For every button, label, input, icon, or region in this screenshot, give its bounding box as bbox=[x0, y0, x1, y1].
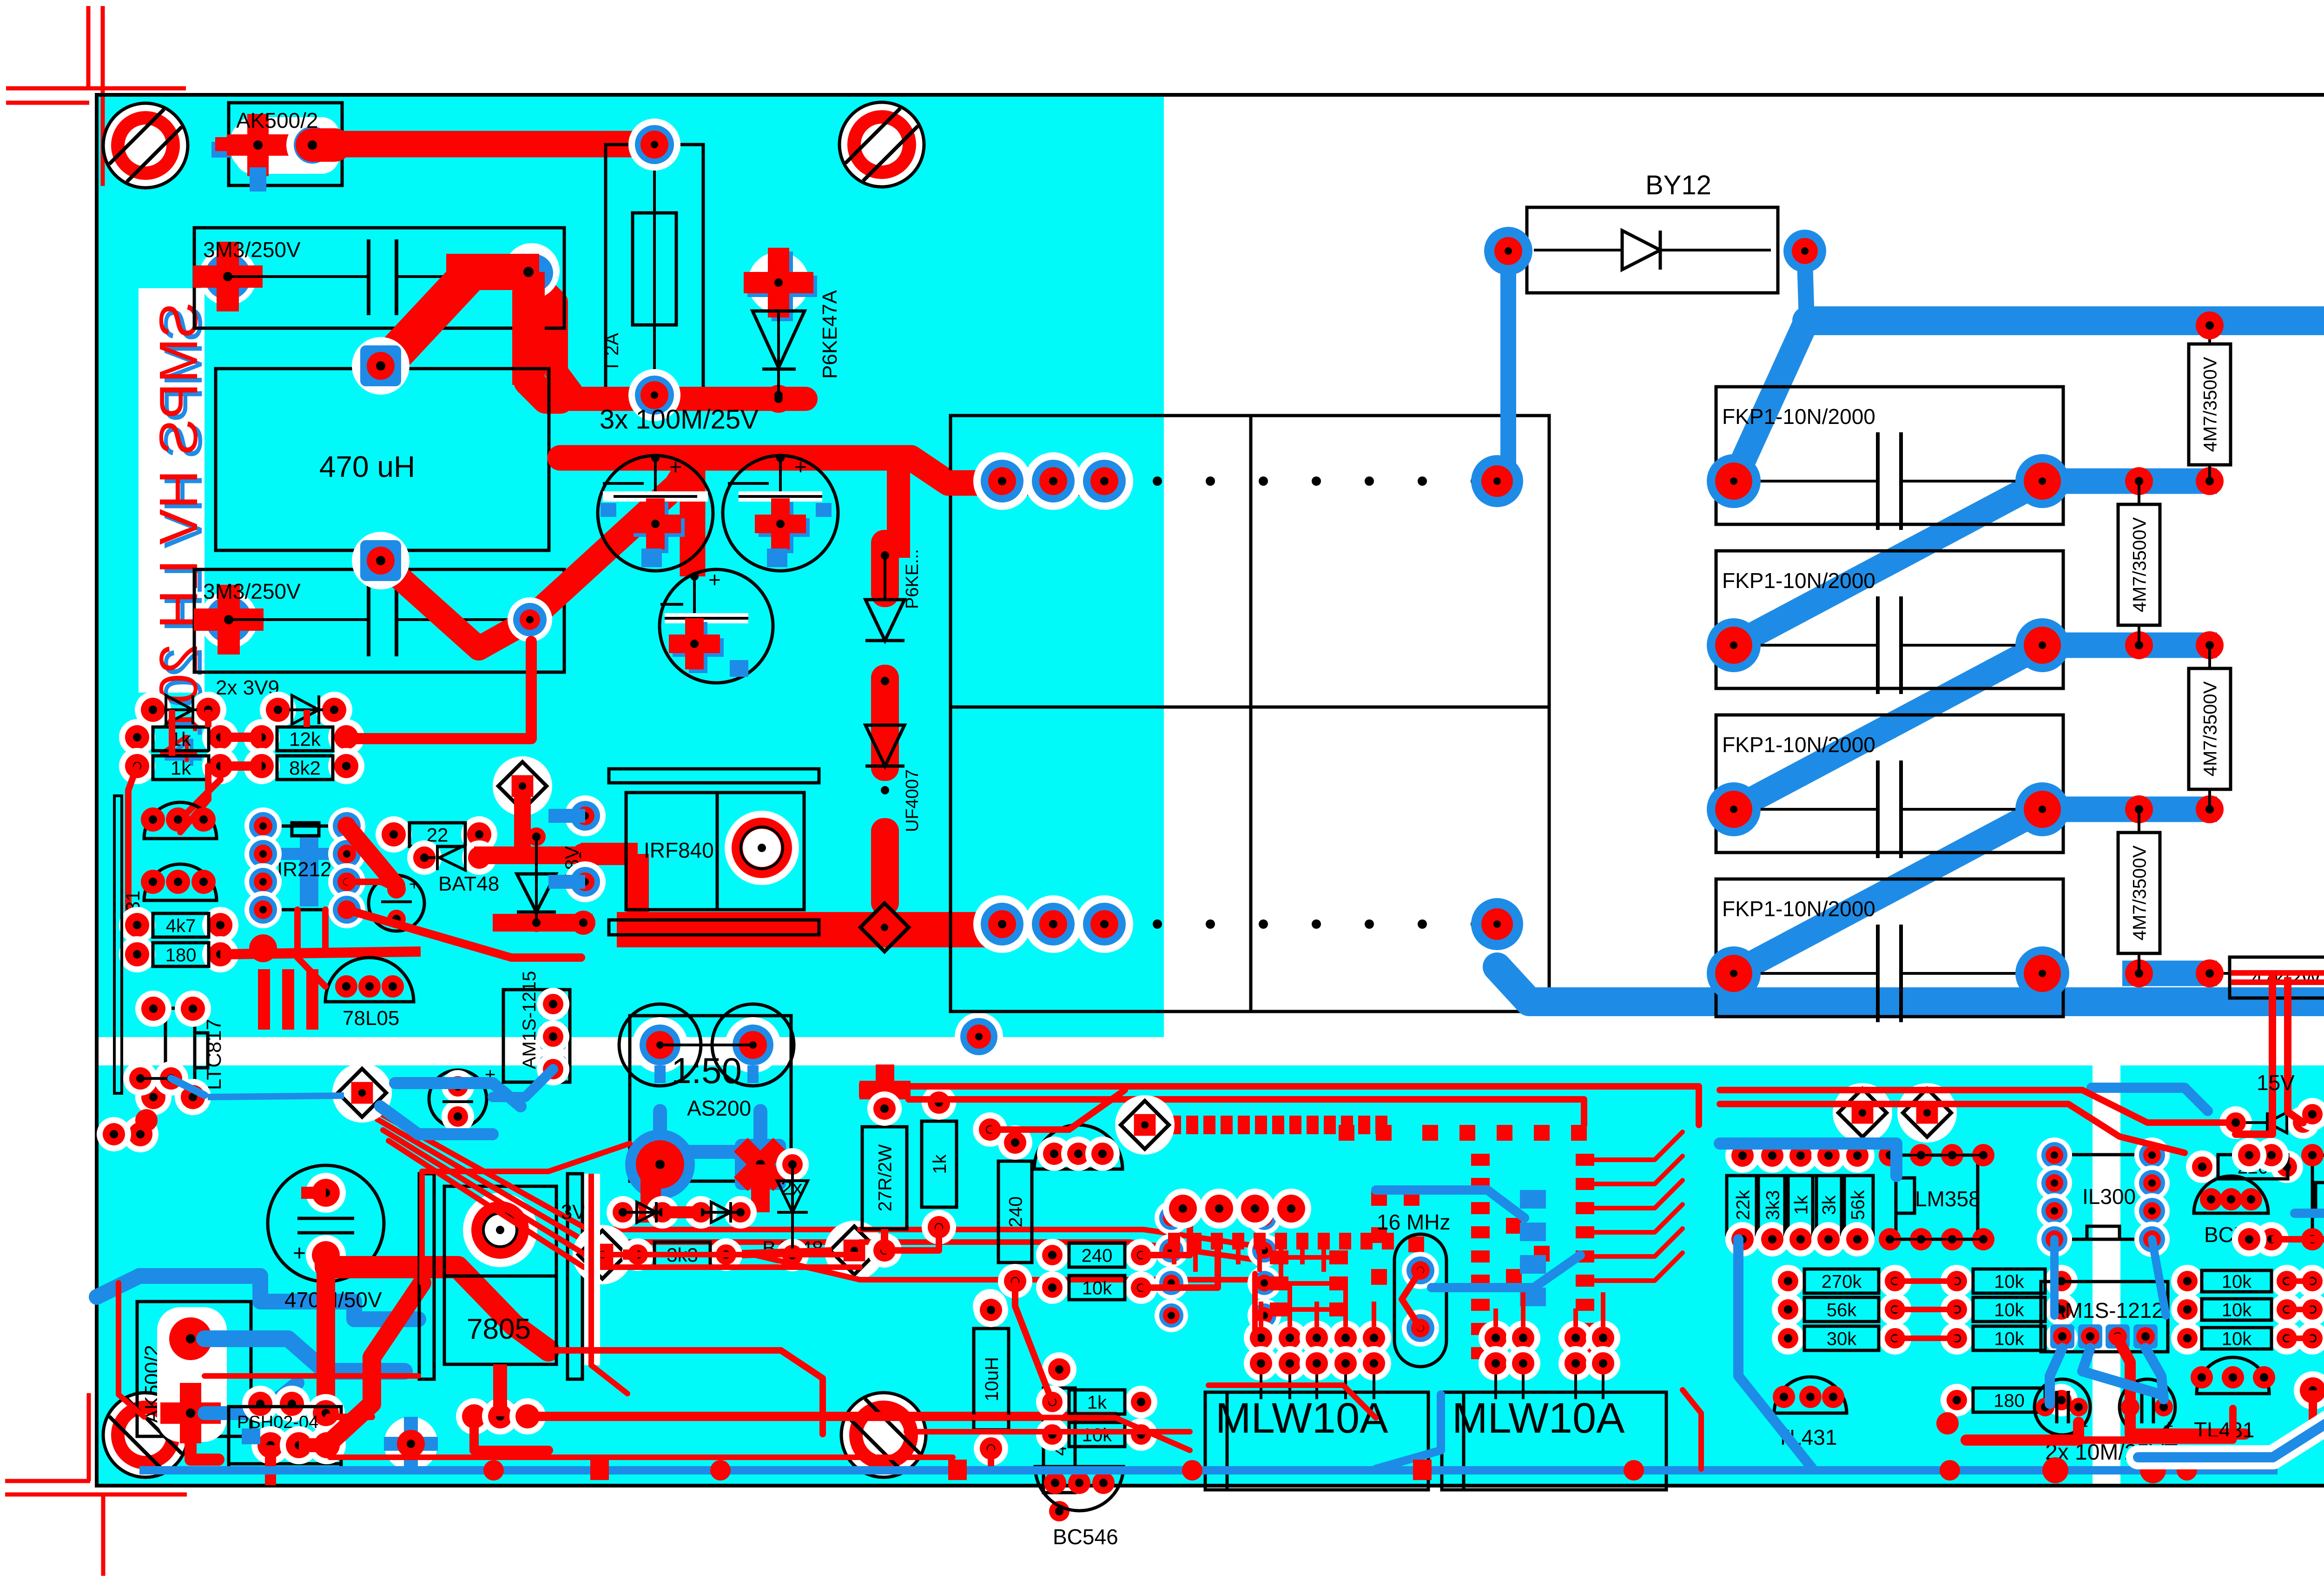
resistor 1k #2 bbox=[119, 748, 155, 784]
red sq pads row top bbox=[1169, 1116, 1181, 1134]
svg-text:56k: 56k bbox=[1848, 1190, 1868, 1220]
wire red V under inductor bbox=[381, 561, 523, 648]
wire red drops to band bbox=[258, 969, 270, 1030]
white keepout right of 7805 bbox=[584, 1174, 600, 1365]
svg-text:+: + bbox=[708, 568, 721, 592]
wire 470M down bbox=[317, 1255, 335, 1408]
wire 18V thick net bbox=[514, 790, 531, 859]
IC LM358 #1 outline bbox=[1896, 1155, 1978, 1239]
wire primary bar top bbox=[948, 470, 1116, 496]
mounting hole top-mid bbox=[839, 102, 924, 187]
regulator 7805 body outline bbox=[444, 1186, 556, 1364]
MCU SOIC right pads bbox=[1471, 1154, 1490, 1166]
wire red bundle into right section bbox=[1720, 1090, 2226, 1123]
svg-text:240: 240 bbox=[1082, 1245, 1113, 1266]
pads AM1S-1212 bbox=[2050, 1324, 2074, 1349]
capacitor 470M/50V outline bbox=[268, 1165, 384, 1282]
wire IRF840 drain bar bbox=[617, 912, 1002, 947]
diode BAT48 vertical bbox=[776, 1148, 809, 1181]
wire MCU fan bbox=[1594, 1132, 1683, 1160]
cap plates FKP#4 bbox=[1876, 925, 1880, 1022]
svg-text:10k: 10k bbox=[1082, 1425, 1112, 1445]
IC IL300 outline bbox=[2061, 1155, 2145, 1239]
svg-text:+: + bbox=[794, 455, 807, 479]
diode BAT48 bbox=[407, 840, 442, 875]
red mcu links bbox=[1172, 1249, 1176, 1264]
wire blue wide steps bbox=[139, 1276, 418, 1319]
resistor 56k top right bbox=[2296, 1098, 2324, 1130]
pad FKP#1 left bbox=[1707, 454, 1761, 508]
via diamonds pair bbox=[1833, 1083, 1892, 1143]
cyan ground plane bottom right bbox=[2120, 1065, 2324, 1486]
pad fuse bottom bbox=[628, 369, 680, 421]
wire blue AM1S bbox=[493, 1069, 553, 1097]
svg-text:30k: 30k bbox=[1827, 1329, 1857, 1349]
svg-text:FKP1-10N/2000: FKP1-10N/2000 bbox=[1722, 404, 1875, 429]
svg-text:1:50: 1:50 bbox=[671, 1050, 742, 1091]
pad cross red chain bottom bbox=[859, 1064, 911, 1116]
diode chain P6KE / UF4007 bbox=[871, 530, 899, 607]
wire blue from AK500 bbox=[205, 1339, 404, 1371]
diamond via left of 3k3 bbox=[573, 1225, 632, 1284]
mounting hole bottom-mid bbox=[841, 1393, 926, 1477]
red sq pads row mid bbox=[1168, 1233, 1180, 1249]
zener 3V9 #2 bbox=[260, 692, 296, 728]
resistor 4M7/3500V #3 bbox=[2196, 631, 2224, 659]
svg-text:1k: 1k bbox=[930, 1154, 950, 1174]
connector PSH02-04 outline bbox=[229, 1407, 341, 1470]
pad FKP#4 right bbox=[2015, 946, 2069, 1000]
pads LM358#1 bbox=[1879, 1144, 1901, 1166]
connector AK500/2 bottom outline bbox=[137, 1302, 251, 1436]
wire diag to bus bbox=[530, 460, 693, 620]
wire main red bus caps bbox=[560, 458, 1116, 483]
fuse F1 outline bbox=[606, 145, 703, 395]
wire fuse-bottom bar bbox=[560, 387, 805, 411]
svg-text:4M7/3500V: 4M7/3500V bbox=[2129, 517, 2150, 612]
resistor 180 left bbox=[1941, 1384, 1973, 1416]
svg-text:4M7/3500V: 4M7/3500V bbox=[2200, 681, 2220, 776]
resistor 4M7/3500V #4 bbox=[2125, 795, 2153, 823]
white notch around bottom-right mount hole bbox=[2305, 1367, 2324, 1486]
pads 1:50 top bbox=[619, 1004, 701, 1086]
svg-text:IRF840: IRF840 bbox=[644, 838, 714, 862]
mounting hole top-left bbox=[103, 103, 188, 188]
svg-text:10uH: 10uH bbox=[982, 1357, 1002, 1402]
black outline strip left bbox=[114, 796, 122, 1093]
cap plates FKP#1 bbox=[1876, 432, 1880, 530]
wire red from AK500 bbox=[191, 1435, 218, 1460]
svg-text:P6KE47A: P6KE47A bbox=[819, 290, 841, 379]
crystal 16 MHz outline bbox=[1394, 1234, 1446, 1367]
capacitor 100M/25V #3 bbox=[660, 569, 773, 683]
svg-text:FKP1-10N/2000: FKP1-10N/2000 bbox=[1722, 897, 1875, 921]
svg-text:27R/2W: 27R/2W bbox=[875, 1144, 895, 1212]
wire red thin bundle mid bbox=[383, 1130, 860, 1255]
svg-text:AM1S-1215: AM1S-1215 bbox=[519, 971, 540, 1069]
svg-text:10k: 10k bbox=[2222, 1329, 2252, 1349]
white blob AK500/2 bbox=[235, 117, 339, 174]
svg-text:P6KE...: P6KE... bbox=[903, 549, 922, 609]
resistor 240 h bbox=[1036, 1239, 1069, 1271]
pad BY12 left bbox=[1484, 227, 1532, 275]
red pads row B bbox=[1244, 1321, 1278, 1355]
IC IR2121 blue tracks bbox=[300, 837, 318, 906]
svg-text:AS200: AS200 bbox=[687, 1096, 751, 1120]
svg-text:AM1S-1212: AM1S-1212 bbox=[2051, 1298, 2164, 1322]
capacitor 3M3/250V #1 outline bbox=[194, 228, 564, 328]
pads AK500/2 bottom bbox=[161, 1309, 220, 1368]
cap plates 3M3#2 bbox=[367, 584, 370, 656]
resistors 10k 10k 10k right bbox=[2171, 1265, 2204, 1297]
diode P6KE47A bbox=[748, 252, 809, 313]
pad FKP#2 right bbox=[2015, 618, 2069, 672]
blue bits under caps bbox=[641, 549, 662, 567]
connector AK500/2 top bbox=[229, 103, 342, 185]
wire cluster to TL431 bbox=[180, 780, 220, 820]
wire chain bottom to bar bbox=[876, 902, 894, 924]
pads IL300 bbox=[2037, 1137, 2072, 1173]
wire red long bottom bbox=[328, 1414, 372, 1420]
svg-text:10k: 10k bbox=[1994, 1271, 2024, 1292]
wire 1k net bbox=[885, 1227, 939, 1250]
red small squares scatter bbox=[1371, 1190, 1387, 1206]
svg-text:10k: 10k bbox=[1994, 1300, 2024, 1320]
transistor TL431 #1 bottom bbox=[1774, 1377, 1847, 1413]
pads 7805 pins bbox=[460, 1402, 488, 1429]
cyan ground plane top-left bbox=[97, 95, 1164, 1037]
resistor 240 vertical bbox=[998, 1161, 1032, 1263]
capacitor FKP1-10N/2000 #4 outline bbox=[1716, 879, 2063, 1017]
pad AS200 left bbox=[625, 1130, 695, 1199]
svg-text:AK500/2: AK500/2 bbox=[236, 108, 318, 132]
svg-text:56k: 56k bbox=[1827, 1300, 1857, 1320]
cap plates FKP#2 bbox=[1876, 596, 1880, 694]
pad AK500/2 pin2 bbox=[286, 119, 338, 171]
svg-text:FKP1-10N/2000: FKP1-10N/2000 bbox=[1722, 733, 1875, 757]
pads mid bbox=[242, 1386, 278, 1422]
svg-text:10k: 10k bbox=[2222, 1300, 2252, 1320]
svg-text:MLW10A: MLW10A bbox=[1452, 1395, 1625, 1442]
via diamond on drain bar bbox=[860, 903, 909, 952]
svg-text:10k: 10k bbox=[1994, 1329, 2024, 1349]
wire cluster IR2121 down bbox=[297, 910, 325, 986]
svg-text:3k3: 3k3 bbox=[1763, 1190, 1783, 1220]
wire AS200 red L bbox=[623, 1176, 651, 1212]
red dot top left strip bbox=[135, 1109, 158, 1131]
wire bus to chain bbox=[887, 458, 910, 558]
wire red AM1S area bbox=[1966, 1422, 2079, 1440]
resistor 22 bbox=[376, 816, 412, 853]
blue rects mcu bbox=[1520, 1190, 1546, 1209]
resistor 470 vertical bbox=[1043, 1388, 1075, 1493]
IRF840 hole pad bbox=[725, 811, 799, 885]
resistor 10k h2 bbox=[1036, 1418, 1069, 1451]
capacitor 10M/25VT bottom circle bbox=[429, 1070, 487, 1128]
wire texture 4 bbox=[1683, 1390, 1701, 1469]
resistors 10k 10k 10k left2 bbox=[1941, 1265, 1973, 1297]
inductor 10uH bbox=[974, 1329, 1009, 1430]
crop mark bottom-left bbox=[87, 1393, 91, 1481]
IC8 pads left col bbox=[1155, 1201, 1188, 1235]
pad on bar at P6KE bbox=[765, 385, 792, 413]
silkscreen text SMPS HV LH 2014 bbox=[139, 288, 205, 693]
svg-text:LM358: LM358 bbox=[1915, 1187, 1981, 1211]
svg-text:4M7/3500V: 4M7/3500V bbox=[2129, 845, 2150, 940]
wire thick top bar to fuse bbox=[325, 131, 655, 158]
pad transformer sec top bbox=[1471, 455, 1523, 507]
zener 3V9 #1 bbox=[135, 692, 171, 728]
pads LTC817 bbox=[135, 991, 172, 1027]
pad AS200 right X bbox=[735, 1139, 786, 1190]
pad transformer sec bottom bbox=[1471, 898, 1523, 950]
wire diag 3M3#1 to inductor bbox=[382, 279, 465, 365]
wire elbow via to bar bbox=[534, 279, 576, 399]
capacitor 100M/25V #2 bbox=[723, 456, 838, 571]
wire cluster reds bbox=[220, 733, 262, 742]
MOSFET IRF840 heatsink top bbox=[609, 769, 819, 783]
diode pair 3V0 bbox=[607, 1196, 639, 1229]
via 470uH top bbox=[352, 337, 409, 395]
optocoupler LTC817 outline bbox=[165, 1008, 195, 1093]
cap plates 3M3#1 bbox=[367, 239, 370, 315]
optocoupler area small parts bbox=[123, 1061, 158, 1096]
resistor 4M7/3500V #1 bbox=[2196, 311, 2224, 339]
wire BY12 right to bus bbox=[1805, 260, 1807, 321]
wire 12k to 3M3#2 net bbox=[346, 641, 531, 739]
pad below transformer bbox=[955, 1012, 1003, 1061]
IC LM358 #2 outline bbox=[2312, 1155, 2324, 1239]
blue stub under AK pin1 bbox=[250, 167, 266, 192]
svg-text:+: + bbox=[293, 1241, 306, 1266]
wire texture 3 bbox=[1252, 1274, 1258, 1339]
blue bar PSH bbox=[242, 1428, 260, 1444]
pad FKP#2 left bbox=[1707, 618, 1761, 672]
resistor 27R/2W bbox=[862, 1127, 907, 1229]
wire blue AM1S legs bbox=[2050, 1348, 2062, 1404]
white blob AK500/2 bottom bbox=[157, 1307, 227, 1442]
resistor 180 bbox=[119, 936, 155, 972]
white keepouts TL431 bbox=[139, 800, 218, 841]
blue bottom bus bbox=[139, 1466, 2278, 1474]
pad 3M3#2 left cross bbox=[200, 591, 257, 648]
svg-text:240: 240 bbox=[1005, 1197, 1026, 1228]
DCDC AM1S-1212 outline bbox=[2041, 1282, 2168, 1352]
wire IRF840 left arm bbox=[581, 843, 638, 865]
svg-text:270k: 270k bbox=[1822, 1271, 1862, 1292]
wire diag bus to FKP1 bbox=[1734, 321, 1807, 481]
wire red bundle top bbox=[372, 1109, 860, 1230]
resistor 220 bbox=[2186, 1150, 2218, 1183]
DCDC AM1S-1215 outline bbox=[503, 990, 570, 1082]
resistors 270k 56k 10k left bbox=[1772, 1265, 1804, 1297]
wire FKP right bars bbox=[2042, 469, 2217, 494]
pads crystal bbox=[1402, 1252, 1439, 1289]
wire FKP diagonals bbox=[1734, 481, 2042, 645]
svg-text:180: 180 bbox=[1994, 1390, 2025, 1411]
wire mid red traces bbox=[1141, 1218, 1190, 1255]
pad FKP#4 left bbox=[1707, 946, 1761, 1000]
pads 470M/50V bbox=[306, 1173, 346, 1213]
diode BY12 outline bbox=[1527, 207, 1778, 293]
MOSFET IRF840 heatsink bottom bbox=[609, 920, 819, 935]
wire bus down to cap3 bbox=[680, 458, 706, 576]
wire band 3M3#1 bbox=[446, 254, 539, 290]
crop mark top-left bbox=[86, 6, 91, 90]
MCU SOIC left pads bbox=[1270, 1250, 1288, 1264]
wire IR2121 to cap bbox=[347, 826, 396, 886]
svg-text:10k: 10k bbox=[2222, 1271, 2252, 1292]
wire thin red through 47k bbox=[2231, 970, 2324, 976]
svg-text:IL300: IL300 bbox=[2082, 1184, 2136, 1209]
via diamond band bbox=[332, 1063, 392, 1123]
wire 180 to 7805 node bbox=[220, 952, 421, 954]
capacitor 100M/25V #1 bbox=[598, 456, 713, 571]
transistor BC546 bottom mid bbox=[1035, 1467, 1123, 1511]
zener 18V bbox=[527, 827, 546, 846]
pads IRF840 gate left bbox=[565, 795, 606, 836]
via 470uH bottom bbox=[352, 532, 409, 589]
pad FKP#3 left bbox=[1707, 782, 1761, 836]
regulator 7805 heatsink outline bbox=[419, 1174, 434, 1379]
wire blue band bbox=[208, 1096, 344, 1097]
resistors 270k 56k 30k right bbox=[2296, 1265, 2324, 1297]
via diamond gate bbox=[493, 756, 552, 816]
svg-text:180: 180 bbox=[165, 945, 197, 965]
wire BY12 left leg bbox=[1500, 260, 1516, 465]
capacitor FKP1-10N/2000 #3 outline bbox=[1716, 715, 2063, 853]
pads col mid bbox=[973, 1112, 1007, 1147]
wire gate bundle right bbox=[347, 910, 581, 958]
capacitor FKP1-10N/2000 #2 outline bbox=[1716, 551, 2063, 688]
pad BY12 right bbox=[1783, 230, 1826, 272]
capacitor FKP1-10N/2000 #1 outline bbox=[1716, 387, 2063, 524]
wire blue bottom right bbox=[1720, 1144, 1896, 1176]
red pads row A bbox=[1163, 1189, 1203, 1229]
resistor 10k h1 bbox=[1036, 1271, 1069, 1304]
red dots on bus bbox=[483, 1460, 504, 1481]
pad AK500/2 pin1 bbox=[229, 116, 287, 174]
mounting hole bottom-left bbox=[103, 1393, 188, 1477]
resistor 1k #1 bbox=[119, 719, 155, 755]
svg-text:3k: 3k bbox=[1819, 1195, 1839, 1215]
svg-text:+: + bbox=[669, 455, 682, 479]
via cross blue bottomleft bbox=[384, 1417, 438, 1471]
connector MLW10A #2 outline bbox=[1442, 1392, 1666, 1490]
connector MLW10A #1 outline bbox=[1205, 1392, 1428, 1490]
red dots under caps bbox=[2042, 1457, 2068, 1483]
resistor 1k vertical bbox=[922, 1121, 957, 1207]
svg-text:470 uH: 470 uH bbox=[319, 450, 415, 483]
svg-text:1k: 1k bbox=[171, 757, 191, 779]
transformer pads bottom row bbox=[973, 895, 1031, 953]
fuse wire bbox=[653, 145, 656, 395]
capacitor 10M/25VT #2 bbox=[2119, 1379, 2175, 1435]
wire red horiz bundle lower bbox=[957, 1466, 1190, 1472]
svg-text:T 2A: T 2A bbox=[602, 333, 622, 372]
inductor 470 uH outline bbox=[216, 369, 549, 550]
resistor column 22k 3k3 1k 3k 56k bbox=[1725, 1138, 1760, 1173]
svg-text:BC546: BC546 bbox=[1053, 1525, 1118, 1549]
svg-text:8k2: 8k2 bbox=[289, 757, 321, 779]
pads PSH02-04 bbox=[251, 1426, 290, 1464]
resistor 4M7/3500V #2 bbox=[2125, 467, 2153, 495]
node dots bottom row bbox=[1153, 919, 1162, 929]
wire 470M thick out bbox=[326, 1255, 548, 1350]
via 3M3#2 right bbox=[508, 597, 552, 642]
svg-text:22k: 22k bbox=[1733, 1190, 1753, 1220]
svg-text:10k: 10k bbox=[1082, 1278, 1112, 1298]
wire PSH to up-right bbox=[327, 1283, 422, 1445]
svg-text:3x 100M/25V: 3x 100M/25V bbox=[600, 404, 759, 435]
pad FKP#1 right bbox=[2015, 454, 2069, 508]
wire elbow via to bar2 bbox=[512, 272, 545, 385]
7805 hole pad bbox=[463, 1193, 537, 1267]
transformer 1:50 outline bbox=[630, 1016, 791, 1181]
IC IR2121 outline bbox=[263, 826, 347, 910]
svg-text:BAT48: BAT48 bbox=[438, 873, 499, 895]
resistor 3k3 bbox=[621, 1238, 654, 1271]
transformer primary pads top row bbox=[973, 452, 1031, 510]
pad fuse top bbox=[628, 119, 680, 171]
via 3M3#1 right rings bbox=[504, 243, 560, 299]
wire HV bottom return bbox=[1497, 967, 2324, 1002]
transistor TL431 #2 bottom bbox=[2197, 1357, 2269, 1394]
pad FKP#3 right bbox=[2015, 782, 2069, 836]
svg-text:16 MHz: 16 MHz bbox=[1377, 1210, 1450, 1234]
svg-text:3M3/250V: 3M3/250V bbox=[203, 579, 301, 603]
wire stub into AK500/2 bbox=[211, 142, 242, 158]
resistor 47k/2W bbox=[2230, 957, 2324, 998]
pads IR2121 bbox=[244, 807, 282, 845]
transistor 78L05 bbox=[325, 958, 414, 1002]
wire long thin top pair bbox=[897, 1086, 1699, 1125]
pad 3M3#1 left cross bbox=[199, 248, 257, 305]
resistor 1k h2 bbox=[1036, 1386, 1069, 1418]
diamond via right of BAT48 bbox=[825, 1221, 884, 1280]
wire blue MCU area bbox=[1432, 1255, 1580, 1288]
svg-text:3M3/250V: 3M3/250V bbox=[203, 238, 301, 262]
svg-text:4M7/3500V: 4M7/3500V bbox=[2200, 357, 2220, 452]
MOSFET IRF840 body outline bbox=[626, 793, 804, 910]
pads AM1S-1215 bbox=[540, 991, 566, 1017]
svg-text:LTC817: LTC817 bbox=[203, 1019, 225, 1090]
BY12 symbol bbox=[1534, 249, 1622, 251]
via diamond mid bbox=[1115, 1095, 1175, 1155]
svg-text:7805: 7805 bbox=[467, 1313, 531, 1345]
transistor TL431 bottom bbox=[144, 864, 217, 900]
wire 7805 pin traces bbox=[493, 1364, 507, 1416]
red pads row C bbox=[1479, 1321, 1513, 1355]
wire HV top bus bbox=[1807, 321, 2324, 456]
svg-text:12k: 12k bbox=[289, 728, 321, 750]
cyan ground plane bottom strip bbox=[97, 1065, 2093, 1486]
svg-text:4k7: 4k7 bbox=[166, 916, 196, 936]
node dots top row bbox=[1153, 476, 1162, 486]
transistor TL431 top bbox=[144, 802, 217, 839]
capacitor 10M/25VT upper bbox=[369, 875, 424, 931]
svg-text:BY12: BY12 bbox=[1645, 170, 1711, 200]
svg-text:1k: 1k bbox=[1087, 1392, 1107, 1413]
svg-text:UF4007: UF4007 bbox=[903, 769, 922, 832]
transistor BC546 top mid bbox=[1034, 1125, 1122, 1169]
white keepout lm358 bbox=[1890, 1154, 1983, 1157]
svg-text:+: + bbox=[409, 875, 419, 894]
transformer outline bbox=[951, 416, 1549, 1011]
svg-text:FKP1-10N/2000: FKP1-10N/2000 bbox=[1722, 569, 1875, 593]
capacitor 10M/25VT #1 bbox=[2034, 1379, 2090, 1435]
wire 47k red pair down bbox=[2269, 998, 2276, 1112]
